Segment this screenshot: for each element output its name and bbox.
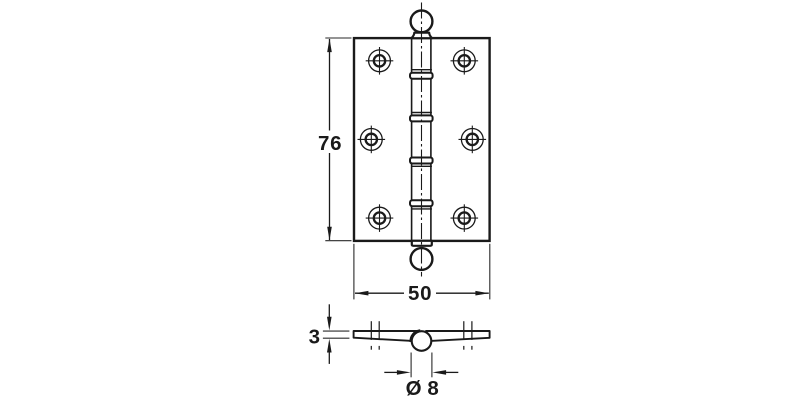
dimension diameter-8 extension line right: [431, 353, 433, 378]
dimension 76 arrow down: [327, 227, 332, 241]
dimension 3 extension line bottom: [323, 337, 350, 339]
dimension 3 extension line top: [323, 330, 350, 332]
pin ball bottom: [411, 248, 433, 270]
pin collar bottom: [412, 241, 432, 246]
screw hole bottom-left: [366, 204, 394, 232]
side view right leaf: [426, 331, 490, 341]
hinge plate outline: [354, 38, 490, 241]
dimension 50 arrow right: [475, 291, 489, 296]
svg-text:3: 3: [309, 326, 320, 349]
dimension 76 extension line top: [325, 37, 351, 39]
knuckle tube left line: [411, 38, 413, 241]
knuckle wrap arc (side view): [411, 331, 420, 342]
dimension 50 arrow left: [355, 291, 369, 296]
dimension 76 label: [316, 131, 345, 154]
screw hole bottom-right: [451, 204, 479, 232]
pin ball top: [411, 11, 433, 33]
dimension 76 line: [329, 39, 331, 240]
dimension 76 extension line bottom: [325, 240, 351, 242]
dimension diameter-8 extension line left: [410, 353, 412, 378]
screw hole middle-right: [459, 126, 487, 154]
side view left leaf: [354, 331, 417, 341]
svg-text:Ø 8: Ø 8: [406, 377, 439, 400]
dimension 3 arrow bottom: [328, 352, 330, 364]
knuckle gap line below band 3: [411, 165, 432, 167]
dimension 3 arrow top: [328, 304, 330, 318]
knuckle band 4: [410, 200, 433, 206]
knuckle gap line above band 1: [411, 69, 432, 71]
pin axis centerline: [421, 3, 423, 277]
screw hole top-right: [451, 47, 479, 75]
dimension 50 line left segment: [355, 292, 404, 294]
svg-text:50: 50: [408, 282, 432, 305]
dimension 50 line right segment: [436, 292, 489, 294]
knuckle gap line above band 2: [411, 112, 432, 114]
screw hole middle-left: [358, 126, 386, 154]
knuckle gap line below band 4: [411, 208, 432, 210]
knuckle band 2: [410, 115, 433, 121]
pin collar top: [412, 33, 433, 39]
dimension diameter-8 arrow left: [384, 371, 397, 373]
dimension 50 extension line right: [489, 244, 491, 300]
screw hole top-left: [366, 47, 394, 75]
dimension 50 extension line left: [353, 244, 355, 300]
hole mark lines left leaf: [371, 321, 379, 350]
knuckle band 3: [410, 158, 433, 164]
svg-text:76: 76: [318, 132, 342, 155]
knuckle tube right line: [430, 38, 432, 241]
pin barrel circle (side view): [412, 331, 432, 351]
dimension diameter-8 arrow right: [446, 371, 459, 373]
hole mark lines right leaf: [464, 321, 472, 350]
knuckle band 1: [410, 73, 433, 79]
dimension 76 arrow up: [327, 38, 332, 52]
